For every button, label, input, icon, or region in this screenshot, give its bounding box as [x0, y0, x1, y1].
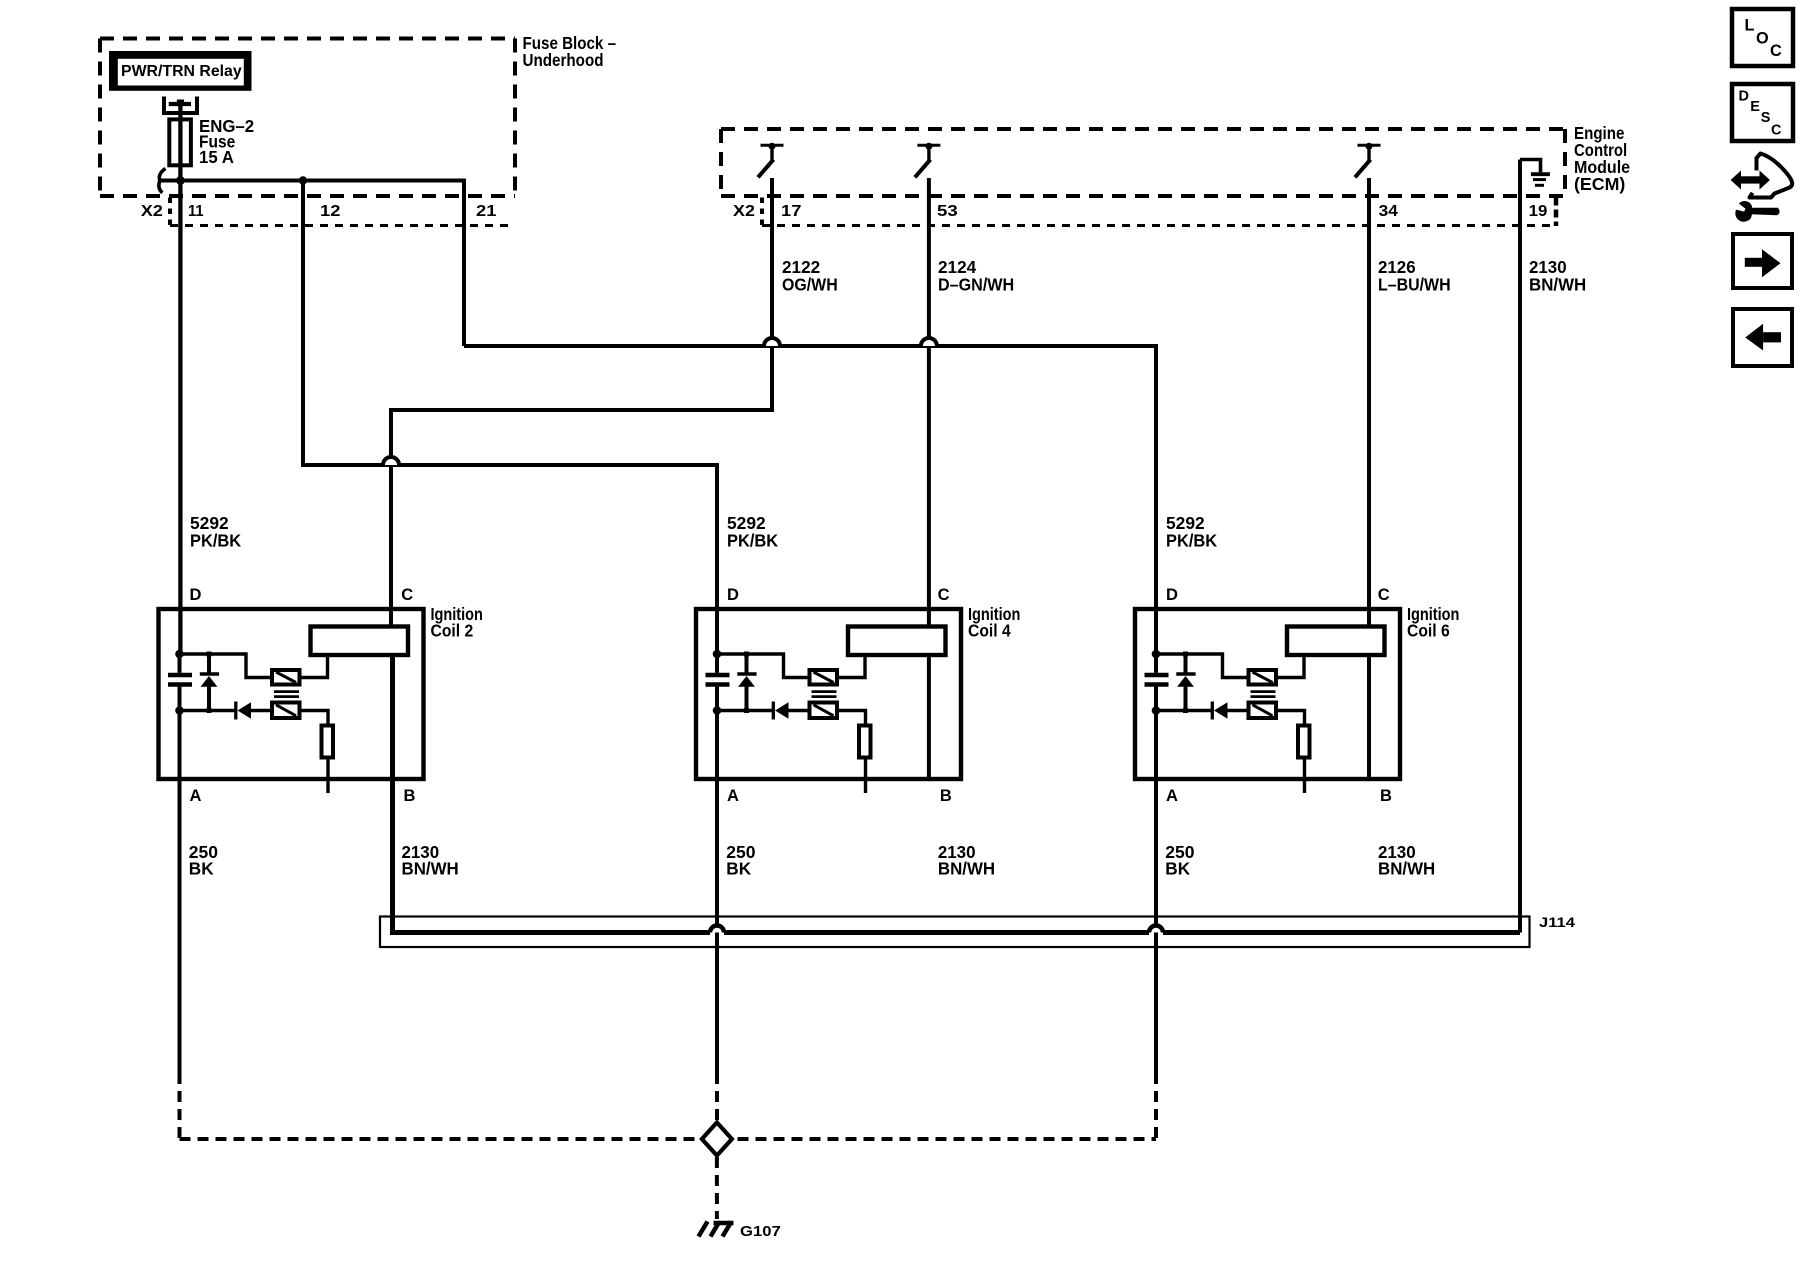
dashed ground wire: coil2 A [178, 1073, 182, 1139]
wire label 2124 D-GN/WH [938, 257, 1014, 295]
svg-text:D: D [1739, 89, 1749, 105]
coil 4 resistor [859, 726, 871, 758]
svg-text:X2: X2 [141, 203, 163, 220]
coil 2 opto/isolator lower [272, 703, 300, 719]
wire label 5292 PK/BK (coil 2 feed) [190, 513, 242, 551]
coil 4 opto/isolator lower [810, 703, 838, 719]
label ENG-2 Fuse 15 A [199, 116, 254, 167]
coil 4 opto/isolator upper [810, 670, 838, 685]
svg-text:34: 34 [1379, 203, 1398, 220]
svg-text:L: L [1745, 17, 1755, 35]
coil 6 opto/isolator upper [1249, 670, 1277, 685]
label Ignition Coil 6 [1407, 604, 1459, 641]
label Ignition Coil 4 [968, 604, 1020, 641]
coil 2 internal wire: D to driver input [180, 654, 273, 678]
svg-text:BN/WH: BN/WH [402, 859, 459, 879]
coil 6 resistor [1298, 726, 1310, 758]
connector X2 row (fuse block) [141, 198, 515, 226]
svg-text:15 A: 15 A [199, 147, 234, 167]
wire 2122 OG/WH: pin 17 to coil 2 pin C [391, 178, 772, 627]
coil 4 primary winding (rectangle) [848, 627, 946, 656]
svg-text:C: C [1771, 123, 1782, 139]
dashed ground bus to G107 [180, 1137, 1157, 1141]
wire 250 BK: coil4 A down (solid) [715, 687, 719, 1073]
svg-text:D: D [1166, 586, 1178, 604]
splice J114 outline [380, 917, 1530, 948]
svg-text:C: C [938, 586, 950, 604]
coil 6 capacitor [1145, 654, 1169, 711]
svg-text:BN/WH: BN/WH [1378, 859, 1435, 879]
wire label 5292 PK/BK (coil 6 feed) [1166, 513, 1218, 551]
switch (ECM driver) at pin17 [758, 143, 784, 178]
dashed wire: diamond to G107 [715, 1157, 719, 1219]
wire label 2126 L-BU/WH [1378, 257, 1451, 295]
svg-text:OG/WH: OG/WH [782, 275, 838, 295]
svg-text:Coil 6: Coil 6 [1407, 621, 1450, 641]
coil 6 opto/isolator lower [1249, 703, 1277, 719]
relay contact terminal bracket [162, 97, 199, 116]
coil 4 node: D junction upper [713, 650, 722, 659]
svg-text:G107: G107 [740, 1223, 781, 1240]
relay K1 PWR/TRN Relay [109, 51, 252, 91]
splice J114 bus wire 2130 BN/WH [393, 655, 1521, 933]
svg-text:C: C [401, 586, 413, 604]
connector symbol at fuse output [159, 169, 166, 193]
coil 2 resistor stub lead [326, 758, 329, 794]
coil 4 capacitor [706, 654, 730, 711]
coil 6 wire: lower opto to resistor [1276, 711, 1305, 726]
coil 2 wire: secondary B lead [391, 655, 395, 781]
coil 6 internal wire: D to driver input [1156, 654, 1249, 678]
svg-text:BN/WH: BN/WH [938, 859, 995, 879]
coil 4 wire: secondary B lead [927, 655, 931, 781]
wire label 2130 BN/WH (coil 2) [402, 842, 459, 879]
fuse block - underhood (dashed box) [100, 39, 515, 197]
coil 6 wire: upper opto to primary [1276, 655, 1304, 678]
ECM internal ground at pin 19 [1520, 160, 1550, 186]
svg-text:BK: BK [726, 859, 751, 879]
coil 2 zener diode [200, 652, 219, 714]
sidebar vehicle navigation icon [1731, 154, 1793, 198]
crossover hop on line A at pin17 wire [764, 338, 780, 346]
crossover hop on J114 bus at coil4 A wire [710, 926, 724, 933]
switch (ECM driver) at pin34 [1355, 143, 1381, 178]
svg-text:53: 53 [937, 203, 958, 220]
svg-text:L–BU/WH: L–BU/WH [1378, 275, 1451, 295]
wire 2124 D-GN/WH: pin 53 to coil 4 pin C [927, 178, 931, 627]
svg-text:D–GN/WH: D–GN/WH [938, 275, 1014, 295]
svg-text:12: 12 [320, 203, 341, 220]
ignition coil 2 (box) [159, 609, 424, 779]
svg-text:Coil 2: Coil 2 [431, 621, 474, 641]
dashed ground wire: coil4 A [715, 1073, 719, 1121]
svg-text:O: O [1756, 29, 1769, 47]
svg-text:C: C [1378, 586, 1390, 604]
wire label 2130 BN/WH (coil 4) [938, 842, 995, 879]
coil 4 wire: upper opto to primary [837, 655, 865, 678]
svg-text:BK: BK [189, 859, 214, 879]
wire: fuse feed horizontal to pin 21 [161, 181, 464, 347]
svg-text:S: S [1761, 110, 1771, 126]
coil 2 isolation barrier bars [274, 692, 299, 697]
fuse F1 ENG-2 15A [169, 119, 191, 165]
wire 5292 PK/BK: pin 12 to coil 4 pin D [303, 181, 717, 655]
svg-text:C: C [1770, 42, 1782, 60]
svg-text:17: 17 [781, 203, 802, 220]
svg-text:11: 11 [188, 203, 204, 220]
ignition coil 4 (box) [696, 609, 961, 779]
coil 6 diode [1212, 702, 1248, 720]
engine control module ECM (dashed box) [721, 129, 1565, 196]
svg-text:21: 21 [476, 203, 497, 220]
crossover hop on line C at coil2 C wire [383, 457, 399, 465]
svg-text:(ECM): (ECM) [1574, 174, 1625, 194]
coil 4 diode [773, 702, 809, 720]
svg-text:D: D [727, 586, 739, 604]
wire 250 BK: coil2 A down (solid) [178, 687, 182, 1073]
label Ignition Coil 2 [431, 604, 483, 641]
svg-text:B: B [940, 787, 952, 805]
svg-text:PK/BK: PK/BK [1166, 531, 1218, 551]
label Fuse Block - Underhood [523, 33, 617, 70]
svg-text:A: A [727, 787, 739, 805]
sidebar next-page button [1733, 234, 1792, 288]
coil 6 node: D junction upper [1152, 650, 1161, 659]
dashed ground wire: coil6 A [1154, 1073, 1158, 1139]
svg-text:D: D [190, 586, 202, 604]
splice diamond at ground bus [702, 1123, 732, 1156]
svg-text:19: 19 [1529, 203, 1548, 220]
wire label 250 BK (coil 6) [1165, 842, 1194, 879]
wire label 5292 PK/BK (coil 4 feed) [727, 513, 779, 551]
svg-text:BK: BK [1165, 859, 1190, 879]
svg-text:B: B [1380, 787, 1392, 805]
coil 6 internal wire: lower to diode [1156, 709, 1211, 712]
svg-text:PK/BK: PK/BK [190, 531, 242, 551]
wire label 2130 BN/WH (coil 6) [1378, 842, 1435, 879]
svg-text:X2: X2 [733, 203, 755, 220]
coil 2 primary winding (rectangle) [311, 627, 409, 656]
coil 2 opto/isolator upper [272, 670, 300, 685]
svg-text:PWR/TRN Relay: PWR/TRN Relay [121, 63, 242, 80]
coil 6 node: A junction lower [1152, 706, 1161, 715]
crossover hop on J114 bus at coil6 A wire [1149, 926, 1163, 933]
coil 2 node: A junction lower [175, 706, 184, 715]
coil 2 internal wire: lower to diode [180, 709, 235, 712]
label Engine Control Module (ECM) [1574, 123, 1630, 194]
switch (ECM driver) at pin53 [915, 143, 941, 178]
coil 4 wire: lower opto to resistor [837, 711, 866, 726]
coil 4 resistor stub lead [864, 758, 867, 794]
svg-text:B: B [404, 787, 416, 805]
coil 6 resistor stub lead [1303, 758, 1306, 794]
coil 4 isolation barrier bars [812, 692, 837, 697]
sidebar previous-page button [1733, 309, 1792, 366]
coil 2 diode [236, 702, 272, 720]
wire label 2130 BN/WH (pin 19) [1529, 257, 1586, 295]
wire 5292 PK/BK: pin 21 to coil 6 pin D [464, 346, 1156, 654]
wire 2126 L-BU/WH: pin 34 to coil 6 pin C [1367, 178, 1371, 627]
svg-text:A: A [190, 787, 202, 805]
coil 6 primary winding (rectangle) [1287, 627, 1385, 656]
svg-text:Coil 4: Coil 4 [968, 621, 1011, 641]
node: junction to pin 12 [299, 176, 307, 184]
wire: relay through fuse to junction [178, 101, 182, 654]
coil 6 wire: secondary B lead [1367, 655, 1371, 781]
coil 2 capacitor [168, 654, 192, 711]
connector X2 row (ECM) [733, 198, 1556, 227]
sidebar wrench icon [1736, 202, 1779, 221]
wire label 250 BK (coil 4) [726, 842, 755, 879]
svg-text:Underhood: Underhood [523, 50, 604, 70]
coil 6 zener diode [1176, 652, 1195, 714]
wire label 250 BK (coil 2) [189, 842, 218, 879]
sidebar DESC button [1732, 84, 1793, 141]
svg-text:E: E [1750, 99, 1760, 115]
coil 2 resistor [322, 726, 334, 758]
node: fuse output junction [176, 176, 185, 185]
wire label 2122 OG/WH [782, 257, 838, 295]
crossover hop on line A at pin53 wire [921, 338, 937, 346]
coil 4 zener diode [737, 652, 756, 714]
coil 4 internal wire: lower to diode [717, 709, 772, 712]
svg-text:A: A [1166, 787, 1178, 805]
coil 4 internal wire: D to driver input [717, 654, 810, 678]
svg-text:PK/BK: PK/BK [727, 531, 779, 551]
ground symbol G107 [699, 1222, 734, 1237]
wire 2130 BN/WH: pin 19 down to J114 [1518, 160, 1522, 933]
coil 2 wire: upper opto to primary [300, 655, 328, 678]
coil 4 node: A junction lower [713, 706, 722, 715]
svg-text:BN/WH: BN/WH [1529, 275, 1586, 295]
coil 2 wire: lower opto to resistor [300, 711, 329, 726]
wire 250 BK: coil6 A down (solid) [1154, 687, 1158, 1073]
svg-text:J114: J114 [1539, 914, 1575, 930]
coil 2 node: D junction upper [175, 650, 184, 659]
sidebar LOC button [1732, 9, 1793, 66]
ignition coil 6 (box) [1135, 609, 1400, 779]
coil 6 isolation barrier bars [1251, 692, 1276, 697]
